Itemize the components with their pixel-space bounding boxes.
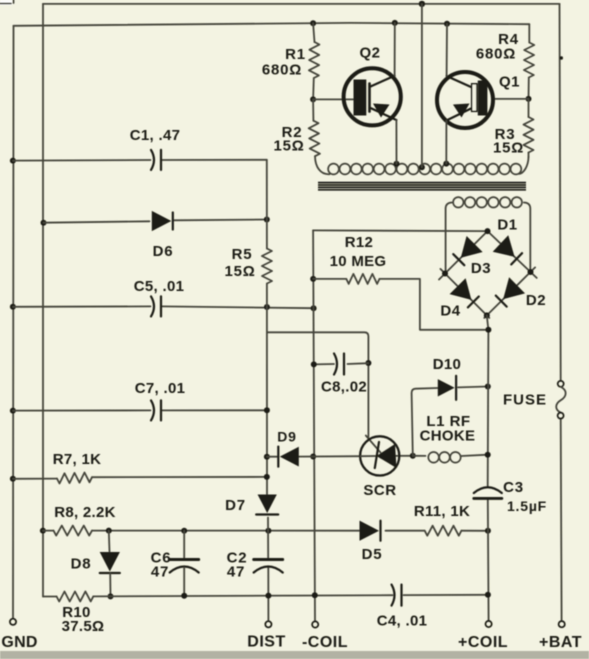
terminal +BAT bbox=[539, 621, 582, 651]
node Q2 collector junction bbox=[392, 20, 398, 26]
wire D10 branch bbox=[412, 387, 488, 456]
svg-text:C3: C3 bbox=[503, 479, 524, 496]
transformer T1 core bbox=[318, 183, 526, 190]
scan artifact bottom band bbox=[0, 651, 589, 659]
wire center tap vertical bbox=[421, 4, 423, 167]
wire R7 line bbox=[13, 477, 267, 479]
node C6 bottom junction bbox=[181, 593, 187, 599]
svg-text:FUSE: FUSE bbox=[503, 392, 547, 409]
resistor R3 bbox=[493, 99, 534, 157]
wire SCR gate diagonal bbox=[366, 436, 381, 453]
svg-text:10 MEG: 10 MEG bbox=[330, 253, 387, 270]
svg-text:680Ω: 680Ω bbox=[476, 46, 516, 63]
node Q1 collector junction bbox=[444, 21, 450, 27]
wire gate branch top (C8 box) bbox=[267, 332, 368, 437]
resistor R12 bbox=[313, 234, 488, 330]
capacitor C4 bbox=[377, 585, 427, 630]
wire bridge arm top-right bbox=[488, 231, 537, 278]
diode D7 bbox=[225, 495, 278, 515]
wire Q2 emitter vertical bbox=[395, 120, 397, 164]
svg-text:1.5µF: 1.5µF bbox=[507, 498, 547, 514]
svg-text:C4, .01: C4, .01 bbox=[377, 613, 427, 630]
node D10 junction on +coil rail bbox=[485, 384, 491, 390]
svg-text:R5: R5 bbox=[232, 246, 253, 263]
wire bottom line bbox=[43, 595, 488, 597]
node R7 line junction on ground rail bbox=[10, 476, 16, 482]
svg-text:D5: D5 bbox=[362, 546, 383, 563]
wire bridge arm bottom-right bbox=[484, 267, 535, 318]
wire D9-SCR line bbox=[267, 455, 413, 458]
svg-text:D7: D7 bbox=[225, 497, 246, 514]
SCR U1 bbox=[360, 436, 399, 499]
resistor R1 bbox=[262, 23, 320, 99]
ground terminal GND bbox=[1, 619, 37, 651]
node Q2 base junction bbox=[310, 96, 316, 102]
node C7 junction on center vertical bbox=[264, 407, 270, 413]
wire bridge arm bottom-left bbox=[440, 269, 489, 318]
wire C5 line bbox=[13, 306, 314, 308]
wire top rail (B+ bus) from x=43 to x=560 bbox=[43, 3, 560, 5]
node bridge output junction bbox=[485, 327, 491, 333]
node C5 line junction on ground rail bbox=[10, 304, 16, 310]
fuse F1 bbox=[503, 381, 566, 419]
node C4 line junction (-coil rail) bbox=[312, 592, 318, 598]
svg-text:D1: D1 bbox=[497, 217, 517, 234]
svg-text:C7, .01: C7, .01 bbox=[135, 380, 185, 397]
node D6-R5 junction bbox=[264, 217, 270, 223]
node C8 right junction bbox=[365, 360, 371, 366]
wire ground rail vertical x=13 bbox=[12, 26, 15, 619]
wire D6 line bbox=[44, 220, 267, 223]
svg-text:47: 47 bbox=[227, 564, 245, 581]
svg-text:15Ω: 15Ω bbox=[493, 140, 524, 157]
node D7 bottom junction bbox=[265, 528, 271, 534]
node SCR-L1 junction bbox=[410, 453, 416, 459]
node bridge left bbox=[442, 271, 448, 277]
wire Q2 base lead bbox=[313, 98, 353, 100]
diode D9 bbox=[277, 429, 299, 467]
node R1 top junction bbox=[310, 20, 316, 26]
wire R8-D5-R11 line bbox=[43, 530, 488, 532]
scan nub on right rail bbox=[560, 56, 563, 59]
capacitor C6 bbox=[151, 531, 199, 596]
svg-text:D4: D4 bbox=[440, 303, 460, 320]
capacitor C1 bbox=[130, 127, 180, 170]
inductor L1 RF choke bbox=[413, 413, 488, 463]
node R8 line junction bbox=[40, 528, 46, 534]
svg-text:15Ω: 15Ω bbox=[273, 138, 304, 155]
capacitor C3 bbox=[474, 479, 547, 514]
svg-text:C8,.02: C8,.02 bbox=[321, 379, 367, 396]
wire C1 line bbox=[13, 159, 267, 162]
wire Q1 collector vertical bbox=[446, 24, 448, 76]
wire center vertical (C1 to DIST) bbox=[267, 160, 269, 621]
svg-text:+COIL: +COIL bbox=[458, 634, 508, 651]
wire bridge arm top-left bbox=[439, 231, 488, 279]
resistor R2 bbox=[273, 121, 319, 157]
node center-tap junction on top rail bbox=[419, 1, 425, 7]
svg-text:15Ω: 15Ω bbox=[224, 263, 255, 280]
terminal -COIL bbox=[302, 621, 348, 651]
diode D1 (bridge) bbox=[493, 217, 522, 265]
resistor R8 bbox=[54, 504, 116, 536]
wire right rail vertical bbox=[560, 4, 562, 621]
wire coil to R3 hook bbox=[519, 157, 529, 174]
transistor Q1 bbox=[437, 72, 520, 128]
wire R12 branch vertical x=313 bbox=[313, 230, 315, 621]
diode D5 bbox=[360, 521, 383, 563]
svg-text:R7, 1K: R7, 1K bbox=[53, 451, 102, 468]
wire R12 top line to bridge bbox=[313, 229, 487, 232]
svg-text:D3: D3 bbox=[471, 260, 491, 277]
node C6 top junction bbox=[181, 528, 187, 534]
terminal +COIL bbox=[458, 621, 508, 651]
diode D4 (bridge) bbox=[440, 278, 478, 319]
node L1 junction on +coil rail bbox=[485, 452, 491, 458]
wire R2 to coil hook bbox=[315, 156, 330, 174]
svg-text:37.5Ω: 37.5Ω bbox=[62, 618, 105, 635]
diode D6 bbox=[152, 211, 174, 260]
node bridge bottom bbox=[484, 312, 490, 318]
resistor R4 bbox=[476, 24, 534, 99]
svg-text:680Ω: 680Ω bbox=[262, 62, 302, 79]
svg-text:D2: D2 bbox=[526, 292, 546, 309]
node C2 bottom junction bbox=[265, 593, 271, 599]
wire Q1 base lead bbox=[493, 98, 529, 100]
svg-text:GND: GND bbox=[1, 634, 37, 651]
capacitor C2 bbox=[227, 550, 283, 581]
capacitor C8 bbox=[314, 354, 369, 396]
svg-text:Q2: Q2 bbox=[359, 45, 380, 62]
svg-text:D6: D6 bbox=[153, 243, 174, 260]
wire C7 line bbox=[13, 409, 267, 411]
wire Q1 emitter vertical bbox=[445, 121, 447, 164]
wire +coil rail vertical bbox=[487, 315, 489, 621]
node D9 junction on center vertical bbox=[264, 454, 270, 460]
node D8 bottom junction bbox=[108, 593, 114, 599]
node Q1 emitter junction on primary bbox=[443, 161, 449, 167]
svg-text:+BAT: +BAT bbox=[539, 634, 582, 651]
svg-text:R8, 2.2K: R8, 2.2K bbox=[54, 504, 116, 521]
svg-text:Q1: Q1 bbox=[499, 74, 520, 91]
capacitor C7 bbox=[135, 380, 185, 420]
node C5-R5 junction bbox=[264, 304, 270, 310]
scan artifact top-left corner mark bbox=[0, 0, 14, 5]
wire Q2 collector vertical bbox=[394, 23, 396, 76]
wire second vertical rail x=43 bbox=[42, 4, 44, 597]
svg-text:R1: R1 bbox=[285, 46, 306, 63]
resistor R11 bbox=[414, 503, 470, 536]
node SCR line junction (-coil rail) bbox=[310, 454, 316, 460]
svg-text:SCR: SCR bbox=[363, 482, 396, 499]
wire second rail (collector bus) from x=14 to x=529 bbox=[14, 23, 530, 26]
node R12 junction bbox=[310, 276, 316, 282]
node C5 link junction bbox=[311, 305, 317, 311]
node bridge right bbox=[528, 269, 534, 275]
svg-text:R12: R12 bbox=[345, 234, 373, 251]
svg-text:-COIL: -COIL bbox=[302, 634, 348, 651]
diode D3 (bridge) bbox=[453, 236, 491, 277]
svg-text:DIST: DIST bbox=[247, 634, 285, 651]
transistor Q2 bbox=[344, 45, 401, 126]
node D6 line junction bbox=[41, 220, 47, 226]
node R7 junction on center vertical bbox=[264, 474, 270, 480]
wire R2 lead bbox=[312, 99, 314, 120]
svg-text:D10: D10 bbox=[433, 356, 461, 373]
node C4 junction on +coil rail bbox=[485, 592, 491, 598]
svg-text:47: 47 bbox=[151, 564, 169, 581]
svg-text:C1, .47: C1, .47 bbox=[130, 127, 180, 144]
node C1 line junction on ground rail bbox=[10, 158, 16, 164]
svg-text:C5, .01: C5, .01 bbox=[134, 278, 184, 295]
node C8 left junction bbox=[311, 361, 317, 367]
svg-text:CHOKE: CHOKE bbox=[420, 428, 476, 445]
node Q2 emitter junction on primary bbox=[394, 161, 400, 167]
diode D2 (bridge) bbox=[496, 277, 546, 309]
terminal DIST bbox=[247, 621, 285, 650]
node D8 top junction bbox=[106, 528, 112, 534]
capacitor C5 bbox=[134, 278, 184, 316]
diode D8 bbox=[71, 531, 120, 597]
svg-text:D8: D8 bbox=[71, 556, 92, 573]
transformer T1 secondary winding bbox=[446, 197, 531, 271]
node Q1 base junction bbox=[526, 96, 532, 102]
transformer T1 primary winding bbox=[328, 164, 521, 175]
svg-text:D9: D9 bbox=[277, 429, 297, 445]
node bridge top bbox=[485, 228, 491, 234]
resistor R5 bbox=[224, 246, 272, 284]
resistor R7 bbox=[53, 451, 102, 484]
node R11 end junction on +coil rail bbox=[485, 528, 491, 534]
node center tap junction on primary bbox=[419, 164, 425, 170]
node C7 line junction on ground rail bbox=[10, 408, 16, 414]
svg-text:R11, 1K: R11, 1K bbox=[414, 503, 470, 520]
resistor R10 bbox=[57, 591, 105, 635]
diode D10 bbox=[433, 356, 461, 400]
